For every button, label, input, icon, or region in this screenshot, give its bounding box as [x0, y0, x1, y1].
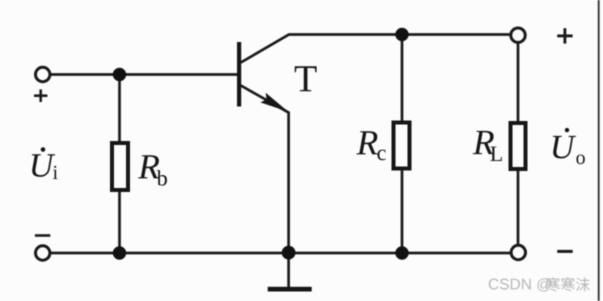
label T (transistor) [295, 66, 317, 91]
junction dot: top rail at Rc [395, 28, 408, 41]
node: bottom-right output terminal circle [511, 245, 525, 259]
wire: base node down to Rb top [118, 75, 121, 143]
wire: RL bottom [517, 170, 520, 246]
transistor Q1 emitter arrow [260, 93, 288, 112]
wire: bottom rail [51, 252, 511, 255]
polarity - (left bottom) [35, 234, 50, 237]
label Uo (output voltage) [553, 128, 585, 164]
polarity + (left input) [34, 89, 47, 102]
wire: Rc top (top rail to Rc) [401, 35, 404, 123]
wire: emitter diagonal [241, 86, 289, 113]
wire: RL top [517, 43, 520, 124]
wire: emitter vertical down to bottom rail [287, 112, 290, 254]
ground stem [287, 253, 290, 288]
node: input terminal circle [36, 67, 50, 81]
junction dot: bottom rail at Rc [395, 246, 408, 259]
polarity + (right output top) [557, 28, 572, 43]
label RL [473, 131, 502, 161]
resistor Rc [394, 123, 410, 169]
wire: Rc bottom to bottom rail [401, 169, 404, 253]
junction dot: base node [113, 68, 126, 81]
wire: collector diagonal and top rail to output terminal [241, 35, 511, 63]
watermark CJK glyphs (hand-drawn) [546, 277, 590, 291]
junction dot: bottom rail at Rb [113, 246, 126, 259]
wire: input from left terminal to base [51, 73, 238, 76]
watermark CSDN @ [489, 278, 551, 291]
label Rb [138, 155, 167, 185]
resistor Rb [112, 143, 128, 190]
resistor RL [511, 123, 526, 169]
label Rc [356, 131, 385, 160]
node: top-right output terminal circle [511, 28, 525, 42]
ground bar [268, 287, 312, 292]
label Ui (input voltage) [32, 147, 58, 179]
wire: Rb bottom to bottom rail [118, 191, 121, 253]
node: bottom-left terminal circle [36, 246, 50, 260]
right image border line [598, 0, 600, 301]
polarity - (right output bottom) [557, 250, 573, 253]
junction dot: bottom rail at emitter/ground [282, 246, 296, 260]
transistor Q1 base bar [237, 42, 241, 107]
